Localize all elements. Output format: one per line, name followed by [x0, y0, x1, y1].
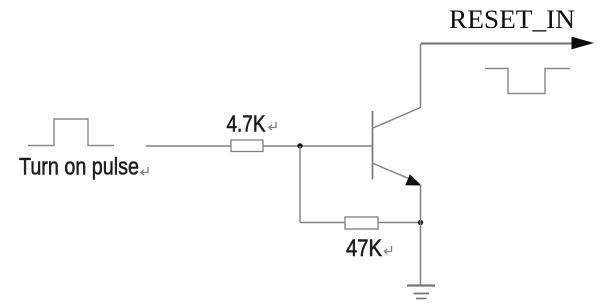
- svg-text:4.7K: 4.7K: [227, 111, 267, 137]
- svg-text:Turn on pulse: Turn on pulse: [19, 154, 139, 181]
- svg-text:47K: 47K: [346, 235, 382, 262]
- svg-text:RESET_IN: RESET_IN: [449, 4, 575, 34]
